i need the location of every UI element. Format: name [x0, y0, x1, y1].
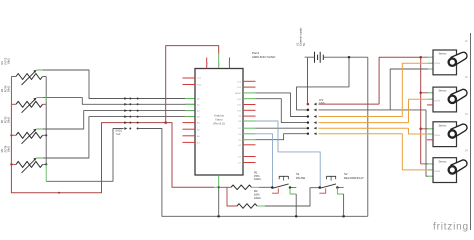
wire servo1 GND: [390, 69, 428, 110]
wire battery loop to JP2 row: [297, 57, 350, 110]
Arduino right pin stub y110.3: [243, 109, 256, 111]
svg-text:pulse: pulse: [434, 134, 441, 137]
svg-text:RECORD/PLAY: RECORD/PLAY: [344, 176, 364, 180]
wire battery left lead: [305, 56, 315, 58]
potentiometer R4 body: [16, 101, 43, 107]
svg-text:Servo: Servo: [439, 89, 447, 93]
wire battery right to GND bus: [367, 57, 369, 216]
battery V1 symbol: [314, 52, 316, 63]
wire pot4 wiper to Arduino row: [37, 117, 195, 158]
svg-text:ARDUINO NANO: ARDUINO NANO: [252, 55, 276, 59]
servo J2 gnd stub: [427, 104, 433, 106]
svg-text:AREF: AREF: [235, 92, 241, 95]
svg-text:(Rev3.0): (Rev3.0): [213, 122, 225, 126]
junction row3: [307, 127, 309, 129]
servo J1 body: [433, 50, 457, 75]
svg-text:Servo: Servo: [439, 52, 447, 56]
wire servo3 V+ feed: [421, 128, 428, 130]
switch S1 PAUSE: [279, 176, 288, 179]
svg-text:10kΩ: 10kΩ: [7, 58, 11, 64]
wire pot1 wiper to Arduino row: [37, 70, 195, 99]
potentiometer R6 body: [16, 161, 43, 167]
Arduino right pin stub y104.5: [243, 104, 256, 106]
junction bus dots: [217, 215, 220, 218]
potentiometer R3 body: [16, 74, 43, 80]
svg-text:10kΩ: 10kΩ: [7, 86, 11, 92]
svg-text:5V: 5V: [302, 43, 306, 46]
potentiometer R3 wiper arrow: [22, 72, 35, 85]
junction battery right: [348, 56, 351, 59]
Arduino right pin stub y87.1: [243, 86, 256, 88]
wire servo4 GND: [426, 110, 428, 176]
servo J4 horn: [451, 160, 467, 173]
potentiometer R5 wiper arrow: [22, 131, 35, 144]
Arduino top pin stub VIN: [206, 58, 208, 69]
Arduino left pin stub y78: [183, 77, 196, 79]
switch S2 RECORD/PLAY: [327, 176, 336, 179]
junction row4: [307, 133, 309, 135]
junction marks row A3: [124, 115, 127, 118]
junction pot4 left: [10, 163, 12, 165]
svg-text:pulse: pulse: [434, 62, 441, 65]
servo J1 horn: [451, 52, 467, 65]
svg-text:fritzing: fritzing: [433, 222, 469, 233]
Arduino left pin stub y122.6: [183, 122, 196, 124]
junction pot3 left: [10, 134, 12, 136]
potentiometer R6 wiper arrow: [22, 160, 35, 173]
potentiometer R4 wiper arrow: [22, 100, 35, 113]
svg-text:1uF: 1uF: [116, 133, 121, 136]
resistor R2: [237, 204, 257, 209]
svg-text:Servo: Servo: [439, 123, 447, 127]
wire bottom pin to GND bus: [218, 187, 220, 216]
wire servo4 V+ feed: [421, 163, 428, 165]
potentiometer R5 body: [16, 132, 43, 138]
wire GND to bottom bus: [138, 129, 368, 217]
servo J4 body: [433, 158, 457, 183]
resistor R1: [231, 185, 252, 190]
wire S1 to GND bus: [290, 188, 296, 195]
wire servo1 pulse orange: [319, 116, 403, 118]
svg-text:Servo: Servo: [439, 159, 447, 163]
servo J3 body: [433, 122, 457, 147]
wire GND row to servos: [319, 109, 427, 111]
wire pot left bus lower (red 5V): [10, 104, 12, 164]
junction GND row: [307, 109, 310, 112]
junction 5V node: [164, 121, 167, 124]
svg-text:GND: GND: [229, 61, 231, 66]
wire blue to S2: [256, 121, 321, 188]
wire R2 to S2: [257, 205, 265, 207]
wire servo3 pulse orange: [319, 127, 409, 129]
svg-text:pulse: pulse: [434, 99, 441, 102]
junction marks row A2: [124, 109, 127, 112]
arrow JP2 red: [314, 103, 317, 106]
servo J3 gnd stub: [427, 139, 433, 141]
Arduino right pin stub y116.1: [243, 115, 256, 117]
Arduino right pin stub y156.5: [243, 156, 256, 158]
svg-text:10kΩ: 10kΩ: [7, 117, 11, 123]
Arduino right pin stub y81.3: [243, 80, 256, 82]
wire blue to S1: [256, 134, 273, 188]
arrow row2: [314, 121, 317, 124]
wire servo V+ bus: [420, 57, 422, 164]
wire 5V to resistors: [166, 123, 214, 188]
wire servo1 V+ feed: [421, 56, 428, 58]
wire D12 to row1: [256, 93, 308, 117]
wire S2 to GND bus: [337, 188, 343, 195]
wire servo2 V+ feed: [421, 92, 428, 94]
wire 5V red bottom loop: [11, 123, 165, 193]
junction JP2 red: [307, 103, 310, 106]
wire pot GND drop: [45, 164, 47, 181]
Arduino left pin stub y142.4: [183, 141, 196, 143]
junction marks row 5V: [124, 121, 127, 124]
Arduino right pin stub y144.8: [243, 144, 256, 146]
Arduino Nano body U1: [195, 69, 243, 176]
junction marks row A0: [124, 97, 127, 100]
junction marks row GND: [124, 127, 127, 130]
arrow row4: [314, 132, 317, 135]
svg-text:10kΩ: 10kΩ: [254, 196, 261, 200]
arrow row1: [314, 115, 317, 118]
Arduino left pin stub y84.5: [183, 84, 196, 86]
wire pot right bus: [45, 77, 47, 165]
servo J2 horn: [451, 89, 467, 102]
wire D11 to row2: [256, 99, 308, 123]
wire pot2 wiper to Arduino row: [37, 98, 195, 105]
arrow row3: [314, 127, 317, 130]
servo J2 body: [433, 87, 457, 112]
wire 5V to R2: [227, 187, 237, 206]
wire 5V to Arduino top pin: [166, 46, 219, 123]
wire servo4 pulse orange: [319, 133, 403, 135]
wire pot3 wiper to Arduino row: [37, 111, 195, 129]
Arduino bottom pin 5V wire: [218, 175, 220, 187]
wire V+ to servo column: [319, 103, 380, 105]
svg-text:VIN: VIN: [207, 62, 209, 66]
wire battery right lead: [323, 56, 368, 58]
junction row2: [307, 121, 309, 123]
wire battery plus drop (red): [307, 58, 309, 105]
svg-text:10kΩ: 10kΩ: [254, 177, 261, 181]
Arduino right pin stub y162.5: [243, 162, 256, 164]
wire pot left bus upper: [10, 77, 12, 105]
wire D5 to row4: [256, 134, 308, 140]
servo J3 horn: [451, 124, 467, 137]
Arduino top pin stub GND: [229, 58, 231, 69]
wire right edge: [470, 33, 472, 230]
svg-text:PAUSE: PAUSE: [296, 176, 305, 180]
svg-text:pulse: pulse: [434, 170, 441, 173]
junction marks row A1: [124, 103, 127, 106]
junction row1: [307, 115, 309, 117]
wire R1 to S1: [252, 186, 260, 188]
arrow GND row: [314, 109, 317, 112]
wire D7 to row3: [256, 127, 308, 129]
Arduino left pin stub y129.2: [183, 128, 196, 130]
svg-text:10kΩ: 10kΩ: [7, 146, 11, 152]
Arduino left pin stub y135.8: [183, 135, 196, 137]
wire servo2 pulse orange: [319, 122, 409, 124]
